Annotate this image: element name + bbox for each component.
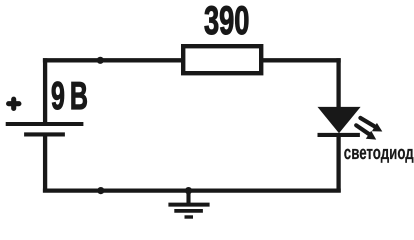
LED VD1 anode triangle: [318, 107, 361, 133]
wire left vertical upper (battery +): [43, 58, 47, 122]
LED light emission arrow upper: [360, 118, 382, 132]
resistor R1 body: [183, 46, 261, 73]
LED VD1 cathode bar: [318, 133, 360, 137]
battery BT1 negative plate: [24, 132, 65, 136]
LED light emission arrow lower: [356, 125, 376, 139]
ground bar 1: [168, 203, 209, 207]
svg-text:9 В: 9 В: [51, 75, 88, 118]
svg-text:390: 390: [204, 0, 249, 43]
wire right vertical lower: [336, 134, 340, 193]
node junction dot ground: [185, 187, 192, 194]
wire left vertical lower (battery -): [43, 136, 47, 192]
ground bar 3: [185, 215, 194, 218]
ground stem: [186, 191, 190, 203]
battery plus sign: [9, 99, 19, 108]
svg-text:светодиод: светодиод: [344, 143, 414, 164]
battery BT1 positive plate: [6, 122, 84, 126]
ground bar 2: [174, 209, 203, 213]
node junction dot bottom-left: [97, 187, 104, 194]
wire right vertical upper: [336, 58, 340, 108]
wire top horizontal: [43, 58, 341, 62]
wire bottom horizontal: [43, 188, 341, 192]
node junction dot top: [97, 57, 104, 64]
